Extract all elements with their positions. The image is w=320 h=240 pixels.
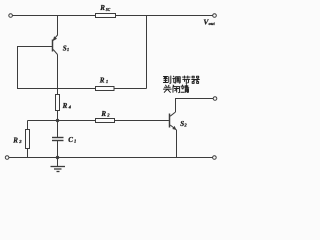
svg-text:1: 1 — [67, 47, 69, 52]
wire bottom rail — [9, 157, 213, 159]
wire drop from output node to R1 rail — [146, 16, 148, 89]
label R2 — [100, 110, 110, 118]
resistor R3 — [26, 121, 30, 158]
terminal common (bottom-left) — [5, 156, 9, 160]
terminal common (bottom-right) — [213, 156, 217, 160]
wire R1 rail — [17, 88, 147, 90]
terminal input (top-left) — [9, 14, 13, 18]
transistor S2 — [170, 99, 214, 158]
label chinese shutdown line2: 关闭端 — [163, 85, 188, 93]
svg-text:R: R — [62, 102, 68, 110]
label R4 — [62, 102, 72, 110]
svg-text:R: R — [99, 4, 105, 12]
resistor RSC — [96, 14, 116, 18]
wire top rail — [13, 15, 213, 17]
label S1 — [63, 44, 69, 52]
label C1 — [68, 136, 76, 144]
junction node R4/C1/R2 — [56, 119, 59, 122]
svg-text:1: 1 — [74, 139, 76, 144]
svg-text:C: C — [68, 136, 73, 144]
resistor R4 — [56, 95, 60, 111]
label S2 — [180, 120, 187, 128]
label RSC — [99, 4, 111, 12]
svg-text:R: R — [100, 110, 106, 118]
resistor R1 — [96, 87, 115, 91]
label R3 — [12, 136, 22, 144]
svg-text:1: 1 — [106, 79, 108, 84]
svg-text:R: R — [12, 136, 18, 144]
label chinese to-regulator line1: 到调节器 — [163, 76, 199, 84]
svg-text:out: out — [209, 21, 216, 26]
ground — [51, 158, 66, 172]
transistor S1 — [53, 16, 58, 121]
wire base loop of S1 — [18, 47, 53, 89]
label Vout — [203, 17, 215, 26]
junction node bottom rail — [56, 156, 59, 159]
svg-text:R: R — [99, 76, 105, 84]
terminal Vout (top-right) — [213, 14, 217, 18]
svg-text:SC: SC — [106, 8, 111, 12]
terminal shutdown (middle-right) — [213, 97, 217, 101]
label R1 — [99, 76, 108, 84]
wire middle rail (R2 / S2 base) — [28, 120, 169, 122]
capacitor C1 — [52, 121, 64, 158]
resistor R2 — [96, 119, 115, 123]
